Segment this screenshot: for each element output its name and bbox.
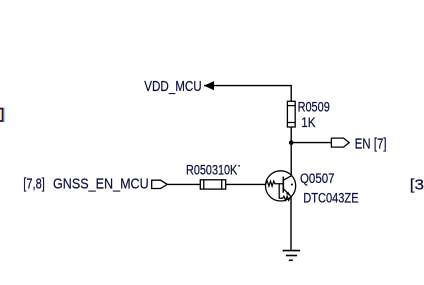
- svg-text:GNSS_EN_MCU: GNSS_EN_MCU: [53, 176, 149, 193]
- resistor R0509 body: [287, 101, 295, 127]
- svg-text:DTC043ZE: DTC043ZE: [303, 191, 358, 206]
- off-page connector (cut at left edge) highlight halo: [3, 107, 5, 122]
- transistor Q0507 circle: [266, 171, 296, 201]
- svg-text:R050310K: R050310K: [186, 162, 237, 177]
- off-page connector (cut at left edge) body: [0, 109, 3, 121]
- power symbol arrow: [204, 81, 214, 90]
- junction dot node EN: [289, 140, 294, 145]
- wire: pentagon to R0503: [167, 183, 200, 185]
- svg-text:R0509: R0509: [298, 100, 330, 115]
- net port pentagon GNSS_EN_MCU: [152, 180, 168, 188]
- transistor Q0507 base bar: [282, 177, 284, 193]
- transistor Q0507 emitter arrowhead: [286, 192, 290, 196]
- wire: R0503 to transistor base: [226, 183, 266, 185]
- wire: emitter to ground: [290, 196, 292, 250]
- transistor Q0507 collector stroke: [283, 176, 291, 180]
- svg-text:Q0507: Q0507: [300, 171, 335, 186]
- transistor origin dot: [291, 184, 293, 186]
- svg-text:1K: 1K: [301, 115, 315, 130]
- stray dot after 10K: [238, 165, 240, 167]
- svg-text:VDD_MCU: VDD_MCU: [144, 78, 201, 95]
- net port pentagon EN: [331, 138, 349, 147]
- resistor R0503 body: [200, 180, 225, 189]
- wire: corner down to R0509: [290, 85, 292, 102]
- transistor Q0507 internal base resistor zigzag: [266, 181, 283, 186]
- svg-text:[3]: [3]: [410, 177, 424, 194]
- transistor Q0507 base-emitter resistor path: [279, 184, 291, 201]
- svg-text:EN [7]: EN [7]: [355, 135, 387, 152]
- wire: node to EN port: [291, 142, 331, 144]
- transistor Q0507 emitter stroke: [283, 189, 291, 197]
- svg-text:[7,8]: [7,8]: [23, 176, 45, 193]
- wire: arrow to corner: [204, 85, 291, 87]
- ground symbol: [283, 251, 301, 261]
- wire: R0509 down to transistor collector: [290, 127, 292, 176]
